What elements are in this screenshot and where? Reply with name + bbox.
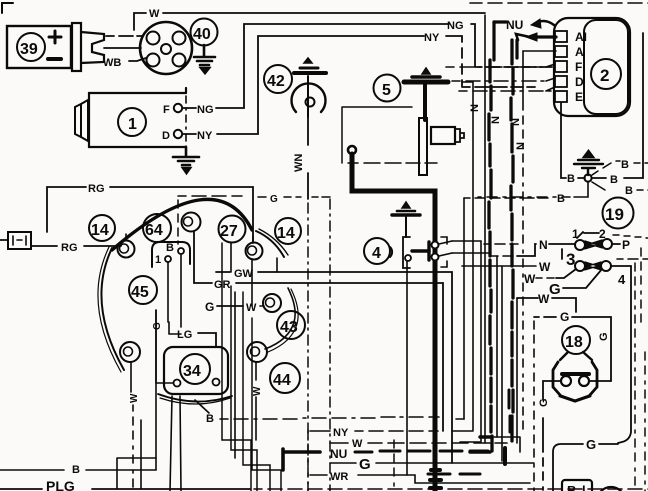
svg-text:G: G <box>152 322 163 330</box>
bulb 44 <box>247 342 267 362</box>
svg-text:27: 27 <box>220 223 238 240</box>
svg-text:5: 5 <box>382 82 391 99</box>
wires from starter switch right <box>452 241 518 244</box>
svg-text:NG: NG <box>197 104 214 116</box>
svg-text:WB: WB <box>103 57 121 69</box>
svg-text:1: 1 <box>155 254 161 266</box>
svg-text:1: 1 <box>572 227 579 241</box>
circled 14 right <box>275 218 301 244</box>
svg-text:19: 19 <box>605 205 624 224</box>
svg-text:40: 40 <box>193 26 211 43</box>
svg-text:NU: NU <box>506 18 523 32</box>
svg-text:B: B <box>621 159 629 171</box>
distributor <box>140 22 192 74</box>
svg-text:2: 2 <box>600 66 609 85</box>
svg-text:RG: RG <box>88 183 105 195</box>
node dashed diagonals <box>592 161 620 175</box>
bus corner joins <box>452 419 481 442</box>
fuse box left <box>0 232 31 249</box>
component 40 label <box>191 19 218 46</box>
svg-text:WN: WN <box>293 154 305 172</box>
svg-text:AI: AI <box>575 30 587 44</box>
svg-text:l: l <box>582 483 586 491</box>
svg-text:G: G <box>538 398 550 407</box>
GW wire <box>216 271 230 273</box>
svg-text:F: F <box>575 60 582 74</box>
battery 39 <box>7 23 104 71</box>
dark wavy NU vertical <box>489 60 492 451</box>
circled 43 <box>277 311 305 339</box>
svg-text:B: B <box>166 242 174 254</box>
svg-text:G: G <box>598 332 610 341</box>
B1 box bottom right <box>562 480 625 491</box>
svg-text:A: A <box>575 45 584 59</box>
ignition switch 5 <box>374 75 401 102</box>
svg-text:45: 45 <box>131 284 149 301</box>
svg-text:GW: GW <box>234 268 254 280</box>
svg-text:B: B <box>206 413 214 425</box>
NU heavy wire <box>494 19 556 60</box>
node right B to frame <box>592 33 643 178</box>
svg-text:NG: NG <box>447 20 464 32</box>
svg-text:W: W <box>149 8 160 20</box>
svg-text:NU: NU <box>330 447 347 461</box>
bulb left on RG <box>118 234 135 258</box>
node stem down and B left dash-dot <box>478 182 588 197</box>
fuel gauge 34 <box>164 347 228 394</box>
svg-text:14: 14 <box>277 225 295 242</box>
svg-text:NY: NY <box>333 427 349 439</box>
control box 2 <box>554 18 630 116</box>
svg-text:42: 42 <box>267 73 285 90</box>
svg-text:PLG: PLG <box>46 478 75 491</box>
svg-text:W: W <box>524 272 536 286</box>
svg-text:F: F <box>163 104 170 116</box>
svg-text:N: N <box>490 116 502 124</box>
circled 14 left <box>89 215 115 241</box>
fuel tank unit B box <box>152 242 190 267</box>
F and D short leads <box>446 64 555 67</box>
dark blob lower <box>503 448 507 464</box>
svg-text:B: B <box>72 464 80 476</box>
svg-text:N: N <box>515 142 527 150</box>
svg-text:NY: NY <box>424 32 440 44</box>
smile arc under 34 <box>158 394 232 402</box>
dynamo 1 <box>75 88 186 148</box>
svg-text:W: W <box>129 393 140 403</box>
svg-text:G: G <box>205 300 214 314</box>
horn 42 <box>264 65 292 93</box>
wires from B box down <box>168 254 181 327</box>
svg-text:4: 4 <box>618 272 626 287</box>
svg-text:LG: LG <box>177 329 192 341</box>
earth node B <box>584 174 591 181</box>
dark wavy N vertical <box>511 40 513 441</box>
svg-text:G: G <box>359 456 371 473</box>
lighting switch 19 <box>603 198 634 229</box>
wire A to 523 <box>523 51 556 429</box>
svg-text:N: N <box>539 238 548 252</box>
svg-text:P: P <box>622 238 630 252</box>
wire battery centre <box>104 47 141 49</box>
bulb on left arc <box>120 342 140 362</box>
frame corner mark <box>2 3 13 13</box>
svg-text:44: 44 <box>273 372 291 389</box>
svg-text:D: D <box>575 75 584 89</box>
fuel gauge 18 <box>562 326 590 354</box>
wire E to earth node <box>561 103 585 178</box>
wires under 34 <box>170 396 181 491</box>
svg-text:D: D <box>162 130 170 142</box>
thick battery cable <box>348 146 356 154</box>
wire W top <box>134 13 485 30</box>
wire WN down from horn <box>307 117 309 199</box>
svg-text:W: W <box>539 260 551 274</box>
svg-text:E: E <box>575 90 583 104</box>
G vertical from switch G <box>533 321 535 491</box>
svg-text:1: 1 <box>128 116 137 133</box>
ground under dynamo <box>173 147 199 173</box>
wire NY <box>183 36 535 134</box>
svg-text:B: B <box>567 173 575 185</box>
wire battery to distributor (dash-dot) <box>106 35 142 37</box>
svg-text:18: 18 <box>565 334 583 351</box>
svg-text:34: 34 <box>183 363 201 380</box>
circled 27 <box>219 216 246 243</box>
wire 43 to bulb 44 double curve <box>265 288 295 349</box>
wire 18 left with G loop <box>543 381 561 491</box>
svg-text:B: B <box>625 185 633 197</box>
svg-text:14: 14 <box>91 222 109 239</box>
svg-text:W: W <box>538 292 550 306</box>
svg-text:W: W <box>352 438 363 450</box>
svg-text:G: G <box>270 194 278 205</box>
wire WB <box>129 58 146 61</box>
wire 407 down <box>406 261 408 475</box>
top dashed line <box>470 2 648 4</box>
svg-text:G: G <box>560 310 569 324</box>
svg-text:64: 64 <box>145 222 163 239</box>
wire NG <box>183 24 552 108</box>
svg-text:G: G <box>549 281 561 298</box>
ground under 40 <box>194 45 215 73</box>
wire from switch 4 down <box>618 266 631 443</box>
starter switch 4 <box>364 238 390 264</box>
circled 64 <box>143 214 171 242</box>
svg-text:RG: RG <box>61 242 78 254</box>
svg-text:4: 4 <box>372 245 381 262</box>
svg-text:39: 39 <box>20 41 38 58</box>
LG wire <box>169 322 181 334</box>
svg-text:G: G <box>586 437 596 452</box>
speedometer arcs <box>112 199 252 250</box>
bulb right 14 <box>246 236 263 260</box>
cluster drop wires with steps <box>222 243 281 491</box>
B dashdot y197 from 464 <box>464 197 548 199</box>
svg-text:N: N <box>510 118 522 126</box>
wire 18 right <box>589 380 611 382</box>
solenoid mid symbol <box>392 202 420 237</box>
long mid verticals <box>462 15 517 461</box>
svg-text:N: N <box>469 104 481 112</box>
wire B bus up to 34 <box>156 310 173 383</box>
instrument dashed box <box>178 196 266 197</box>
svg-text:WR: WR <box>330 471 348 483</box>
svg-text:W: W <box>252 386 263 396</box>
dash-dot right P <box>640 248 642 322</box>
bulb mid 64 <box>182 213 201 232</box>
wire bulb44 down with W <box>255 362 257 440</box>
svg-text:B: B <box>610 174 618 186</box>
circled 45 <box>129 276 157 304</box>
svg-text:NY: NY <box>197 130 213 142</box>
svg-text:B: B <box>557 193 565 205</box>
